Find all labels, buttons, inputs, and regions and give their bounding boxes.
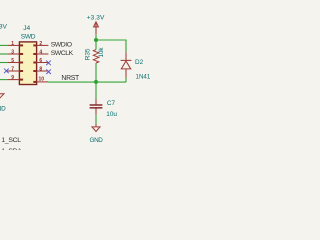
wire pin5 GND to left edge xyxy=(0,62,7,64)
junction dot NRST xyxy=(94,80,98,84)
svg-text:J4: J4 xyxy=(23,25,30,32)
wire diode bottom to NRST xyxy=(125,78,127,83)
svg-text:8: 8 xyxy=(39,67,42,73)
svg-text:C7: C7 xyxy=(107,100,116,107)
wire power arrow to junction xyxy=(95,34,97,40)
svg-text:6: 6 xyxy=(39,58,42,64)
junction dot upper xyxy=(94,38,98,42)
svg-text:D2: D2 xyxy=(135,59,144,66)
wire pin9 GNDDetect to left edge xyxy=(0,79,7,81)
wire pin3 GND to left edge xyxy=(0,53,7,55)
svg-text:1_SCL: 1_SCL xyxy=(1,137,21,144)
C7 bottom pin lead xyxy=(95,109,97,115)
connector J4 body xyxy=(19,42,36,85)
svg-text:GND: GND xyxy=(0,105,6,112)
diode D2 xyxy=(121,52,132,77)
ground symbol lead xyxy=(95,124,97,127)
connector pins xyxy=(7,45,48,82)
svg-text:5: 5 xyxy=(11,58,14,64)
svg-text:3: 3 xyxy=(11,50,14,56)
C7 top pin lead xyxy=(95,99,97,104)
svg-text:R35: R35 xyxy=(85,48,92,60)
wire C7 to GND xyxy=(95,115,97,124)
wire junction to resistor top xyxy=(95,40,97,50)
no-connect X pin 8 xyxy=(46,69,51,74)
ground symbol GND xyxy=(92,127,100,132)
no-connect X pin 7 xyxy=(4,69,9,74)
wire junction to C7 xyxy=(95,82,97,99)
svg-text:+3.3V: +3.3V xyxy=(87,15,105,22)
svg-text:9: 9 xyxy=(11,75,14,81)
resistor R35 xyxy=(93,50,99,63)
svg-text:1N4148: 1N4148 xyxy=(136,74,151,81)
connector contact notches xyxy=(20,44,37,83)
capacitor C7 xyxy=(90,105,103,108)
wire +3.3V branch to diode xyxy=(96,40,126,52)
no-connect X pin 6 xyxy=(46,61,51,66)
svg-text:SWCLK: SWCLK xyxy=(51,50,74,57)
svg-text:10u: 10u xyxy=(106,111,117,118)
svg-text:SWD: SWD xyxy=(21,33,36,40)
svg-text:SWDIO: SWDIO xyxy=(51,42,72,49)
svg-text:10k: 10k xyxy=(98,47,105,58)
svg-text:7: 7 xyxy=(11,67,14,73)
wire NRST net xyxy=(48,81,126,83)
wire pin1 VTref to left edge xyxy=(0,44,7,46)
svg-text:2: 2 xyxy=(39,41,42,47)
svg-text:GND: GND xyxy=(90,137,104,144)
svg-text:+3.3V: +3.3V xyxy=(0,24,7,31)
svg-text:1: 1 xyxy=(11,41,14,47)
svg-text:1_SDA: 1_SDA xyxy=(1,148,22,150)
svg-text:4: 4 xyxy=(39,50,42,56)
power symbol +3.3V arrow xyxy=(94,22,99,34)
ground symbol cut at left edge xyxy=(0,94,4,98)
svg-text:NRST: NRST xyxy=(61,75,80,82)
svg-text:10: 10 xyxy=(39,77,45,83)
wire resistor bottom to NRST junction xyxy=(95,63,97,82)
